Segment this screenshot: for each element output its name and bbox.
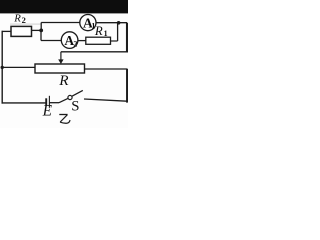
- label R: [58, 72, 69, 89]
- svg-text:S: S: [71, 98, 79, 114]
- switch lever: [72, 90, 83, 96]
- ghost underline artifact: [10, 23, 41, 25]
- ammeter A2: [61, 32, 78, 49]
- wire R left lead: [2, 66, 35, 68]
- wire slider rail: [61, 51, 128, 53]
- ammeter A1: [80, 15, 96, 31]
- battery E plates: [45, 98, 47, 105]
- wire battery to switch: [49, 102, 59, 104]
- wire left vertical: [1, 31, 3, 104]
- svg-text:1: 1: [104, 29, 108, 38]
- label R1: [94, 24, 108, 38]
- svg-text:2: 2: [73, 40, 77, 49]
- wire A1 to right: [96, 22, 127, 24]
- resistor R2: [11, 26, 32, 36]
- label E: [42, 103, 53, 120]
- label 乙 (hand-drawn glyph): [59, 115, 70, 124]
- top black band (crop artifact): [0, 0, 128, 13]
- svg-text:R: R: [58, 72, 69, 89]
- wire right vertical upper: [126, 23, 128, 52]
- rheostat R: [35, 64, 85, 73]
- wire right vertical lower: [126, 69, 128, 103]
- wire R2 left lead: [2, 30, 11, 32]
- wire bottom left: [2, 102, 46, 104]
- wire A2 to R1: [78, 40, 86, 42]
- svg-text:R: R: [94, 24, 103, 38]
- wire top to A1: [41, 22, 80, 24]
- background: [0, 0, 128, 128]
- label S: [71, 98, 79, 114]
- slider arrow: [60, 52, 62, 61]
- wire R2 right lead: [32, 29, 42, 31]
- wire R right lead: [85, 68, 128, 70]
- label R2: [13, 13, 26, 26]
- node dot right: [117, 21, 121, 25]
- switch S pivot: [68, 95, 72, 99]
- node dot left (junction to R): [1, 66, 4, 69]
- wire to A2: [41, 40, 61, 42]
- svg-text:R: R: [13, 13, 21, 25]
- node dot (R2 junction): [39, 29, 43, 33]
- svg-text:E: E: [42, 103, 53, 120]
- wire R1 right lead: [111, 40, 118, 42]
- wire switch to right: [84, 99, 127, 101]
- wire vertical R1 to top node: [117, 23, 119, 41]
- resistor R1: [86, 37, 111, 44]
- wire riser up: [40, 23, 42, 31]
- wire riser down: [40, 30, 42, 40]
